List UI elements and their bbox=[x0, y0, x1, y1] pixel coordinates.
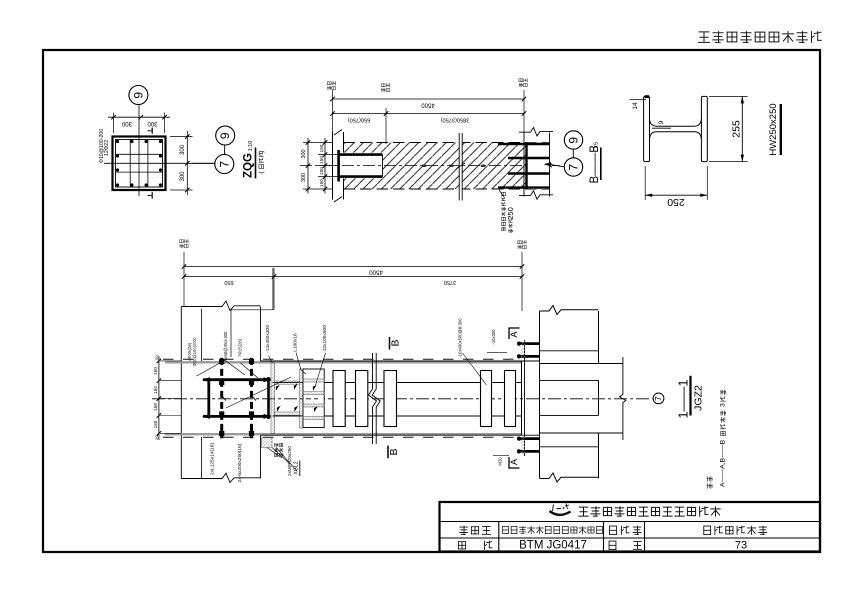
svg-text:14: 14 bbox=[632, 102, 639, 110]
svg-text:150: 150 bbox=[319, 167, 324, 175]
svg-text:7Φ25(28): 7Φ25(28) bbox=[238, 338, 243, 357]
svg-text:7: 7 bbox=[567, 164, 581, 171]
svg-text:A: A bbox=[509, 331, 519, 337]
svg-text:150: 150 bbox=[319, 179, 324, 187]
svg-text:4500: 4500 bbox=[421, 102, 435, 108]
svg-text:B: B bbox=[388, 448, 400, 455]
svg-text:1——1: 1——1 bbox=[677, 380, 691, 419]
svg-text:Φ10@100-200: Φ10@100-200 bbox=[99, 129, 105, 163]
svg-text:A: A bbox=[509, 459, 519, 465]
svg-text:150: 150 bbox=[153, 386, 158, 394]
svg-text:9: 9 bbox=[567, 137, 581, 144]
svg-text:650(750): 650(750) bbox=[348, 116, 371, 122]
svg-text:150: 150 bbox=[319, 156, 324, 164]
svg-text:3: 3 bbox=[720, 403, 727, 407]
svg-text:Φ10@100(200): Φ10@100(200) bbox=[192, 337, 197, 367]
svg-text:300: 300 bbox=[180, 144, 186, 155]
svg-text:7: 7 bbox=[654, 396, 663, 401]
svg-text:-6x60@35d-300: -6x60@35d-300 bbox=[223, 331, 228, 362]
svg-text:ZQG: ZQG bbox=[243, 153, 255, 178]
svg-text:50: 50 bbox=[154, 355, 159, 360]
svg-text:50: 50 bbox=[154, 435, 159, 440]
svg-text:-14x450x300: -14x450x300 bbox=[265, 325, 271, 353]
svg-text:): ) bbox=[258, 150, 265, 152]
svg-text:-10x400x500@8-300: -10x400x500@8-300 bbox=[458, 318, 463, 358]
svg-text:150: 150 bbox=[153, 367, 158, 375]
svg-text:9: 9 bbox=[131, 92, 145, 99]
svg-text:9: 9 bbox=[218, 132, 232, 139]
svg-text:1:5: 1:5 bbox=[594, 142, 600, 149]
svg-text:12Φ22: 12Φ22 bbox=[104, 140, 110, 156]
svg-text:300: 300 bbox=[147, 120, 158, 126]
svg-text:255: 255 bbox=[730, 120, 742, 138]
svg-text:250: 250 bbox=[506, 207, 515, 220]
svg-text:-12x100x500: -12x100x500 bbox=[322, 325, 328, 353]
svg-text:7: 7 bbox=[217, 161, 231, 168]
svg-text:3850(3750): 3850(3750) bbox=[441, 117, 470, 123]
svg-text:BTM JG0417: BTM JG0417 bbox=[519, 539, 587, 551]
svg-text:250: 250 bbox=[667, 196, 685, 208]
svg-text:B——B: B——B bbox=[589, 145, 601, 184]
svg-text:HW250x250: HW250x250 bbox=[768, 103, 779, 155]
svg-text:B: B bbox=[389, 339, 401, 346]
svg-text:300: 300 bbox=[121, 120, 132, 126]
svg-text:2x-6x200x250(16): 2x-6x200x250(16) bbox=[237, 443, 243, 482]
svg-text:300: 300 bbox=[301, 149, 307, 158]
svg-text:L100x16: L100x16 bbox=[292, 333, 298, 352]
svg-text:1:10: 1:10 bbox=[248, 141, 254, 152]
svg-text:650: 650 bbox=[224, 279, 233, 285]
svg-text:9: 9 bbox=[658, 120, 665, 124]
svg-text:4500: 4500 bbox=[369, 268, 383, 275]
svg-text:3750: 3750 bbox=[444, 279, 456, 285]
svg-text:150: 150 bbox=[153, 403, 158, 411]
svg-text:300: 300 bbox=[180, 171, 186, 182]
svg-text:300: 300 bbox=[301, 173, 307, 182]
svg-text:2xL125x14(16): 2xL125x14(16) bbox=[210, 443, 216, 475]
svg-text:73: 73 bbox=[735, 540, 747, 552]
svg-text:150: 150 bbox=[319, 144, 324, 152]
svg-text:150: 150 bbox=[153, 420, 158, 428]
svg-text:JGZ2: JGZ2 bbox=[693, 385, 705, 411]
svg-text:A——A,B——B: A——A,B——B bbox=[720, 439, 727, 487]
svg-text:-10x300: -10x300 bbox=[491, 329, 496, 345]
svg-text:M20: M20 bbox=[498, 457, 503, 466]
